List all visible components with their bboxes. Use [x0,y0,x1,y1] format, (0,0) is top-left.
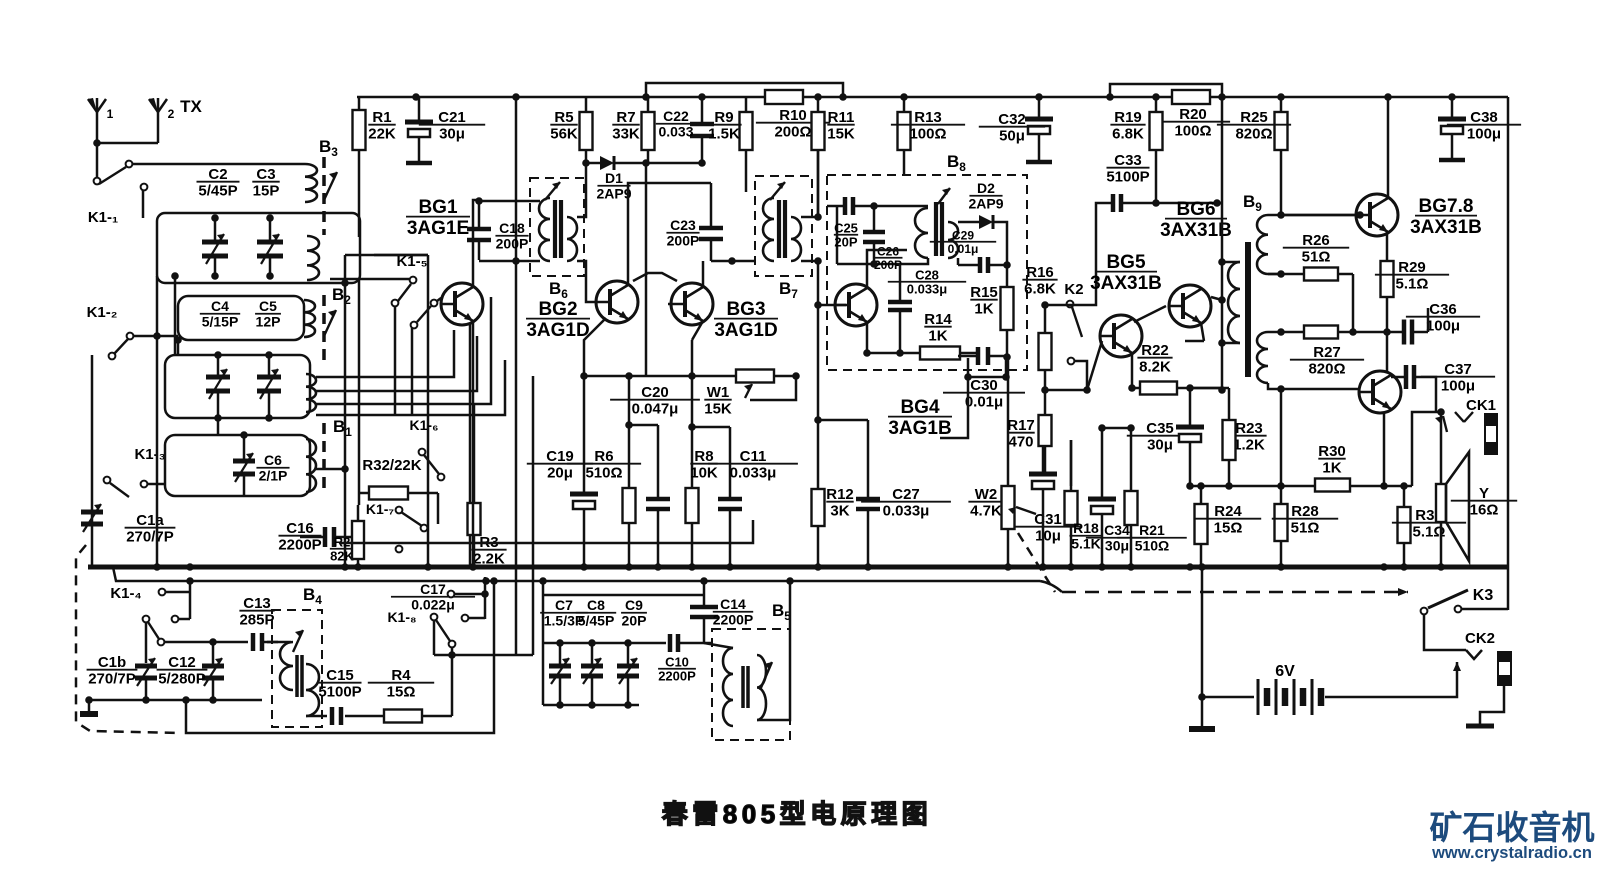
resistor R25 [1275,97,1288,215]
label K1-6 mid [410,417,439,433]
wire BG6 emitter to B9 [1185,340,1204,343]
svg-text:R6: R6 [594,448,613,465]
svg-text:470: 470 [1008,434,1033,451]
svg-text:100μ: 100μ [1426,318,1460,335]
svg-text:CK1: CK1 [1466,397,1496,414]
svg-text:12P: 12P [256,314,281,330]
label R29 [1375,259,1449,293]
svg-text:100μ: 100μ [1467,126,1501,143]
svg-text:C16: C16 [286,520,314,537]
tank3 dots [240,431,248,439]
B9 vertical dots [1218,258,1226,394]
resistor R9 [740,97,753,192]
svg-text:270/7P: 270/7P [88,671,136,688]
transistor BG2 [596,281,638,323]
wire B8 loop bottom [837,263,909,266]
inductor B3 secondary [307,236,319,280]
svg-text:春雷805型电原理图: 春雷805型电原理图 [662,799,932,829]
svg-text:C21: C21 [438,109,466,126]
capacitor C25 [827,197,874,215]
wire BG7 collector to bus [1387,97,1390,198]
svg-text:820Ω: 820Ω [1235,126,1272,143]
svg-text:30μ: 30μ [439,126,465,143]
label R25 [1217,109,1291,143]
C30 sub loop [968,358,1006,377]
svg-text:0.033μ: 0.033μ [730,465,777,482]
antenna 1 [88,98,106,143]
svg-text:0.033μ: 0.033μ [907,282,948,297]
emitter rail dots [1186,482,1233,490]
wire R28 top to B9 [1280,389,1283,430]
wire rail up to CK1 [1412,412,1441,486]
resistor R29 [1381,234,1394,332]
svg-text:R26: R26 [1302,232,1330,249]
capacitor C19 [570,376,598,567]
label B2 [332,285,351,307]
label R6 [567,448,641,482]
resistor R30 [1315,479,1350,492]
label R9 [706,109,741,143]
wire K1-4 c1 [165,591,190,594]
svg-text:5/15P: 5/15P [202,314,239,330]
capacitor C38 [1438,97,1466,160]
wire tank2 to tank3 [217,418,220,435]
wire B1 to corridor [316,468,345,471]
transistor BG4 [835,284,877,326]
svg-text:R20: R20 [1179,106,1207,123]
svg-text:C36: C36 [1429,301,1457,318]
svg-text:C3: C3 [256,166,275,183]
svg-text:2.2K: 2.2K [473,551,505,568]
svg-text:C18: C18 [499,220,525,236]
capacitor C18 [467,202,491,260]
label R31 [1392,507,1466,541]
wire corridor v1 [344,255,347,567]
label R14 [924,311,952,345]
arrow into CK2 [1453,662,1461,671]
svg-text:C29: C29 [952,229,974,243]
label B5 [772,601,791,623]
variable capacitor C1b [135,658,157,700]
wire vertical x157 [156,276,159,567]
label C21 [419,109,485,143]
capacitor C27 [856,420,880,567]
wire K2 R16 join [1045,304,1073,307]
label B1 [333,417,352,439]
inductor B3 primary [305,164,317,202]
svg-text:R15: R15 [970,284,998,301]
label R32/22K [362,457,421,474]
label TX [180,97,202,116]
wire BG3 emitter [692,321,703,340]
resistor R22 [1132,382,1222,395]
ground bottom left [80,700,98,714]
linkage arrow [1398,588,1408,596]
svg-text:C7: C7 [555,597,573,613]
svg-text:C2: C2 [208,166,227,183]
wire raised loop over R10 [646,83,843,97]
svg-text:BG2: BG2 [538,299,577,320]
wire C23 bottom loop [711,260,755,263]
svg-text:D2: D2 [977,180,995,196]
wire BG1 base drop [411,328,414,415]
wire antenna join [97,142,158,145]
resistor R3 [468,404,481,567]
trimmer line B3 [322,157,326,235]
ground CK2 [1466,724,1494,729]
svg-text:C17: C17 [420,581,446,597]
wire C30 down to W2 [1007,357,1010,486]
switch K1-6 mid lever [424,455,439,474]
inductor B9 secondary bottom [1257,332,1268,383]
c34 top dots [1098,424,1135,432]
label C1b [87,654,138,688]
label R2 [330,534,355,563]
wire bias row [1045,389,1087,392]
svg-text:R10: R10 [779,107,807,124]
wire B9 sec bottom to BG8 base [1268,383,1359,389]
resistor R31 [1398,486,1411,567]
resistor R11 [812,97,825,217]
wire C18 top loop [479,200,540,203]
trimmer arrow B4 [293,630,303,652]
svg-text:200P: 200P [874,258,902,272]
tank2 link dot [174,336,182,344]
svg-text:R14: R14 [924,311,952,328]
svg-text:3AG1B: 3AG1B [888,418,951,439]
label CK2 [1465,630,1495,647]
wire BG4 collector [867,250,907,288]
svg-text:20P: 20P [622,613,647,629]
wire corridor v5 [532,376,535,567]
svg-text:C23: C23 [670,217,696,233]
svg-text:R32/22K: R32/22K [362,457,421,474]
label BG2 [526,299,590,341]
svg-text:1.5K: 1.5K [708,126,740,143]
wire antenna down to K1-1 [96,143,99,177]
svg-text:BG4: BG4 [900,397,940,418]
switch K1-7 contacts [396,507,428,553]
svg-text:0.01μ: 0.01μ [948,242,979,256]
svg-text:BG7.8: BG7.8 [1419,196,1474,217]
label Y 16 [1451,485,1517,519]
svg-text:K2: K2 [1064,281,1083,298]
dashed linkage to K3 [1062,591,1408,594]
label antenna 1 pin [107,107,114,121]
transformer B7 core [779,200,785,258]
svg-text:2200P: 2200P [658,669,696,684]
label C1a [125,512,176,546]
svg-text:30μ: 30μ [1147,437,1173,454]
svg-text:6.8K: 6.8K [1112,126,1144,143]
capacitor C20 [646,425,670,567]
wire B9 prim bot [1222,342,1240,345]
label B8 [947,152,966,174]
wire x359 vertical [358,280,361,505]
switch K1-6 mid contacts [419,449,445,481]
svg-text:R8: R8 [694,448,713,465]
resistor R10 on bus [765,90,803,104]
inductor B6 secondary [567,217,577,261]
svg-text:8.2K: 8.2K [1139,359,1171,376]
label C11 [708,448,798,482]
wire c34 r21 top [1102,427,1131,430]
variable capacitor tank1 a [202,218,228,276]
wire B8 loop left [836,206,839,264]
svg-text:C33: C33 [1114,152,1142,169]
capacitor C34 [1088,428,1116,567]
AGC dots [582,159,706,167]
svg-text:R19: R19 [1114,109,1142,126]
svg-text:R4: R4 [391,667,411,684]
wire v4 below bus [515,567,518,655]
svg-text:C10: C10 [665,654,689,669]
svg-text:200P: 200P [496,236,529,252]
svg-text:1K: 1K [928,328,947,345]
wire BG1 emitter [472,321,475,567]
switch K1-7 lever [401,512,422,526]
trimmer line B1 [322,423,326,492]
wire C7 bank left [542,581,545,705]
variable capacitor tank1 b [257,218,283,276]
wire R26R27 right tie [1352,274,1355,332]
label R16 [1022,264,1057,298]
wire left vertical [91,355,94,567]
svg-text:510Ω: 510Ω [1135,538,1170,554]
resistor R4 [345,710,452,723]
svg-text:0.033μ: 0.033μ [883,503,930,520]
wire B8 coil bottom [909,258,928,264]
BG4 base dot [814,301,822,424]
switch K1-4 lever [148,622,159,639]
wire B9 prim top [1222,261,1240,264]
B8 dots [863,202,1011,361]
trimmer arrow B8 [938,188,950,204]
wire node to BG8 [1386,332,1389,371]
svg-text:5100P: 5100P [318,684,361,701]
label R1 [368,109,396,143]
svg-text:D1: D1 [605,170,623,186]
inductor B8 primary [915,208,928,258]
svg-text:R16: R16 [1026,264,1054,281]
capacitor C28 [888,264,912,353]
svg-text:200P: 200P [667,233,700,249]
resistor R32 [359,487,438,500]
label K2 [1064,281,1083,298]
label R11 [827,109,855,143]
dashed switch boundary [76,545,180,733]
wire BG6 emitter [1201,323,1204,341]
svg-text:C4: C4 [211,298,229,314]
svg-text:100Ω: 100Ω [909,126,946,143]
capacitor C37 [1391,365,1430,389]
label BG5 [1090,252,1162,294]
wire bundle 3 [316,297,491,404]
wire mid emitter rail [1190,485,1412,488]
rail dots [186,577,794,585]
label 6V [1275,663,1295,680]
wire BG6 collector [1211,297,1222,300]
svg-text:K3: K3 [1473,587,1494,604]
wire bundle 4 [316,360,505,415]
wire C7 bank bottom [543,704,639,707]
switch K1-8 contacts [431,591,469,648]
CK1 break arrow [1435,416,1447,432]
wire K1-1 lower contact [142,190,145,218]
label C26 [874,245,903,272]
label C32 [979,111,1045,145]
wire emitter rail [584,375,796,378]
junction dots on top bus [412,93,1456,101]
trimmer arrow B7 [770,182,785,200]
label C20 [610,384,700,418]
left connector dots [341,279,349,473]
trimmer arrow B6 [545,182,560,200]
wire K2 bottom [1074,361,1087,390]
svg-text:15Ω: 15Ω [1214,520,1243,537]
svg-text:285P: 285P [239,612,274,629]
label C4 [200,298,240,329]
label R19 [1110,109,1145,143]
osc return dots [182,696,190,704]
label C15 [318,667,361,701]
transformer B8 core [936,202,942,256]
wire r18 top [1070,440,1073,486]
svg-text:56K: 56K [550,126,578,143]
resistor R23 [1223,388,1236,485]
label C27 [861,486,951,520]
wire K1-3 wire [147,483,165,486]
svg-text:2AP9: 2AP9 [968,196,1003,212]
wire sec-top bottom lead [1268,273,1281,276]
wire D1 to R7 [614,162,702,165]
wire R32 right drop [437,493,440,524]
tank2 label box [178,296,304,340]
wire C7 bank top [543,642,666,645]
dashed linkage from W2 [1018,533,1055,592]
wire B6 sec bottom to BG2 [577,261,596,302]
wire speaker bottom [1440,522,1443,567]
label B6 [549,279,568,301]
svg-text:K1‑₇: K1‑₇ [366,501,394,517]
battery dots [1198,693,1206,701]
wire C36 right [1427,308,1430,332]
variable capacitor C8 [581,643,603,705]
label C14 [713,596,753,627]
svg-text:R21: R21 [1139,522,1165,538]
svg-text:100μ: 100μ [1441,378,1475,395]
label C18 [495,220,528,251]
wire R12 to C27 [818,419,868,422]
wire C17 to rail [455,593,485,596]
label C33 [1106,152,1149,186]
transistor BG3 [671,283,713,325]
switch K1-3 contacts [104,477,148,488]
switch K1-5 contacts [392,277,417,307]
trimmer arrow B3 [324,172,337,200]
capacitor C32 [1025,97,1053,162]
watermark cn [1430,809,1595,846]
wire osc return [186,581,494,733]
transformer B4 core [297,655,302,697]
svg-text:C15: C15 [326,667,354,684]
svg-text:0.022μ: 0.022μ [411,597,455,613]
label R26 [1283,232,1349,266]
transformer B6 core [555,200,561,258]
svg-text:C30: C30 [970,377,998,394]
inductor B7 secondary [791,217,801,261]
label R27 [1290,344,1364,378]
capacitor C35 [1176,388,1204,485]
potentiometer W2 [1002,486,1015,567]
wire K1-8 c drop [433,621,436,655]
tank2 dots [214,351,273,422]
resistor R5 [580,97,593,163]
label C12 [157,654,208,688]
svg-text:10K: 10K [690,465,718,482]
resistor R7 [642,97,655,163]
svg-text:5/45P: 5/45P [198,183,237,200]
label C22 [656,108,696,139]
svg-text:K1‑₂: K1‑₂ [87,304,118,321]
wire v5 below bus [532,567,535,655]
C30 drop [940,377,968,438]
transistor BG8 [1359,371,1401,413]
svg-text:20μ: 20μ [547,465,573,482]
svg-text:BG3: BG3 [726,299,765,320]
wire top supply bus [357,96,1508,99]
wire R27 to node [1353,331,1387,334]
svg-text:200Ω: 200Ω [774,124,811,141]
svg-text:R22: R22 [1141,342,1169,359]
wire K1-8 b wire [469,617,485,620]
wire C37 to CK1 [1430,377,1436,411]
IF row dots [580,372,800,431]
svg-text:K1‑₆: K1‑₆ [410,417,439,433]
label R13 [891,109,965,143]
svg-text:51Ω: 51Ω [1302,249,1331,266]
wire bundle 1 [316,330,454,377]
svg-text:CK2: CK2 [1465,630,1495,647]
label R4 [368,667,434,701]
switch K1-2 lever [114,339,128,354]
wire K3 right [1462,608,1508,611]
svg-text:W2: W2 [975,486,998,503]
label W1 [704,384,732,418]
resistor R21 [1125,428,1138,567]
svg-text:R1: R1 [372,109,391,126]
inductor B6 primary [539,198,550,261]
label R3 [471,534,506,568]
wire K2 to BG5 base [1087,341,1102,390]
trimmer arrow B5 [760,662,772,690]
wire C25 to coil [874,205,928,208]
switch K1-2 contacts [109,333,134,360]
inductor B8 secondary [948,222,958,258]
label R17 [1007,417,1035,451]
label BG3 [714,299,778,341]
svg-text:2/1P: 2/1P [259,468,288,484]
switch contact chain to BG1 [411,298,441,328]
svg-text:2200P: 2200P [713,612,753,628]
wire K1-4 c2 [178,618,190,621]
R22 dots [1128,384,1194,392]
wire K1-8 moving drop [451,648,454,716]
label BG1 [406,197,470,239]
svg-text:C12: C12 [168,654,196,671]
jack CK2 [1498,652,1511,685]
BG7 base dots [1277,211,1364,219]
